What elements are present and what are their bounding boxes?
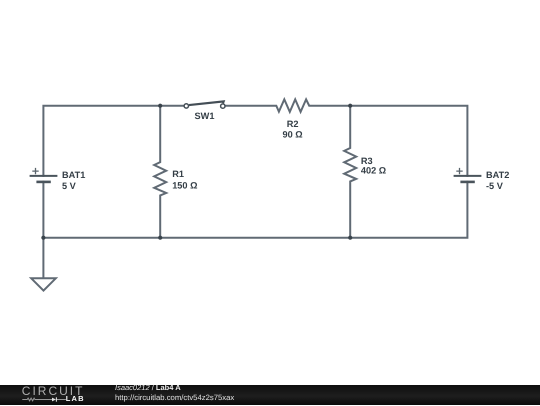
svg-text:-5 V: -5 V xyxy=(486,181,504,191)
svg-text:BAT1: BAT1 xyxy=(62,170,85,180)
svg-text:90 Ω: 90 Ω xyxy=(283,130,303,140)
svg-text:R3: R3 xyxy=(361,156,373,166)
svg-text:BAT2: BAT2 xyxy=(486,170,509,180)
svg-text:5 V: 5 V xyxy=(62,181,77,191)
svg-text:R1: R1 xyxy=(172,169,184,179)
svg-text:150 Ω: 150 Ω xyxy=(172,181,197,191)
svg-text:402 Ω: 402 Ω xyxy=(361,166,386,176)
svg-text:R2: R2 xyxy=(287,119,299,129)
svg-text:SW1: SW1 xyxy=(195,111,215,121)
